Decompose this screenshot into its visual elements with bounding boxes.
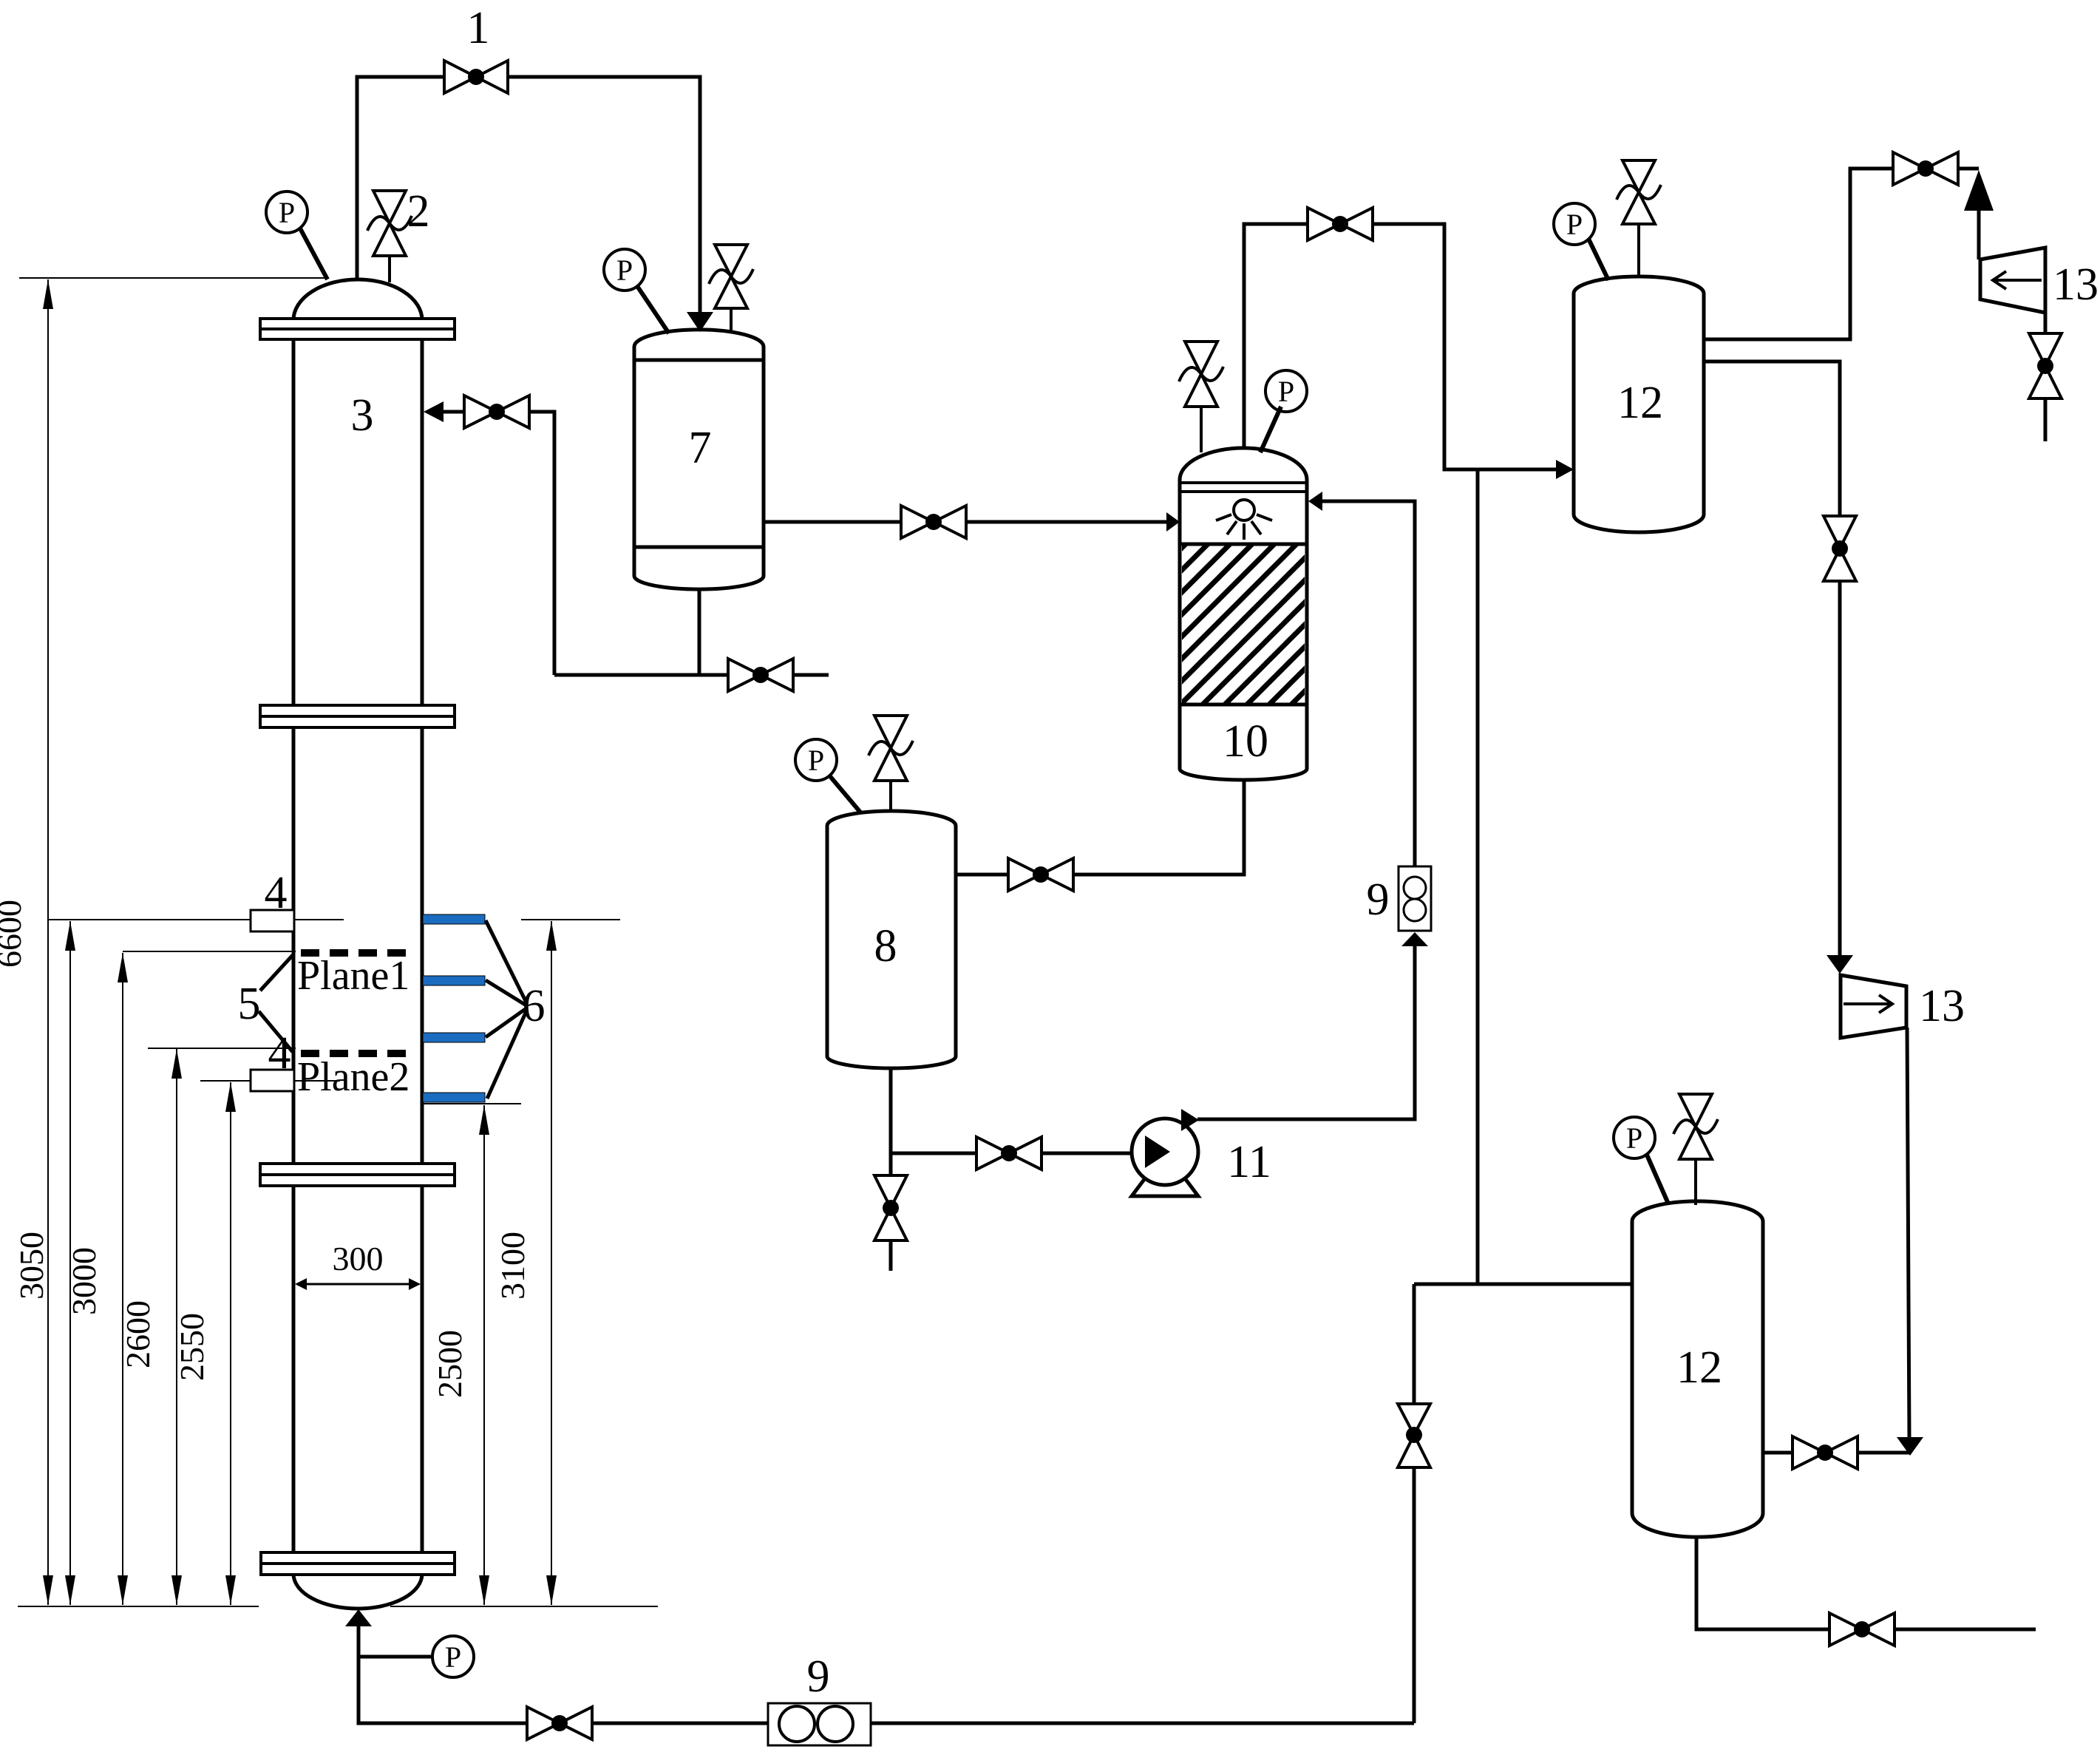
dimension 6600	[0, 279, 53, 1605]
vessel 10 body	[1180, 448, 1307, 780]
wire vessel 12 upper lower outlet to valve	[1704, 361, 1840, 516]
wire down to compressor 13 lower	[1838, 581, 1842, 955]
pressure gauge P (column 3 top)	[266, 191, 327, 279]
svg-text:12: 12	[1617, 378, 1663, 428]
valve (pump suction)	[976, 1137, 1041, 1170]
wire vessel 8 drain stub	[889, 1240, 893, 1271]
control valve (vessel 12 lower top)	[1673, 1094, 1718, 1205]
dimension 2600	[119, 1049, 182, 1605]
wire vessel 7 side outlet	[764, 520, 901, 524]
svg-text:P: P	[808, 744, 824, 777]
sensor bar 2 (blue)	[423, 976, 485, 985]
flow meter 9 (bottom)	[768, 1703, 871, 1745]
svg-text:P: P	[279, 196, 295, 229]
vertical valve (vessel 8 drain)	[874, 1175, 907, 1240]
ground reference line	[18, 1606, 658, 1607]
svg-text:2550: 2550	[173, 1313, 211, 1381]
hand valve (column 3 side feed)	[464, 396, 529, 428]
svg-text:P: P	[445, 1640, 461, 1674]
pressure gauge P (vessel 12 lower)	[1614, 1117, 1668, 1202]
valve (7 to 10 line)	[901, 506, 966, 538]
svg-text:2600: 2600	[119, 1300, 157, 1368]
svg-text:12: 12	[1676, 1342, 1722, 1393]
compressor 13 (upper)	[1980, 248, 2045, 313]
wire valve to compressor top	[1958, 169, 1979, 259]
valve (vessel 12 lower side)	[1793, 1436, 1858, 1469]
leader lines from 5	[259, 955, 293, 1052]
valve (compressor recycle)	[1893, 152, 1958, 185]
vessel 12 upper body	[1574, 276, 1704, 532]
control valve 2	[367, 191, 412, 282]
wire riser to vessel 10 right inlet	[1322, 501, 1415, 866]
pressure gauge P (vessel 7)	[604, 249, 669, 333]
wire vessel 12 lower side outlet	[1763, 1451, 1793, 1455]
valve (bottom header)	[527, 1707, 592, 1739]
wire drain header	[554, 673, 728, 677]
dashed line Plane2	[301, 1050, 413, 1057]
wire vessel 12 lower bottom outlet	[1696, 1537, 1829, 1629]
wire valve to flow meter 9	[592, 1722, 768, 1725]
svg-text:6600: 6600	[0, 900, 28, 968]
svg-text:P: P	[1278, 375, 1294, 408]
svg-text:13: 13	[2053, 259, 2099, 310]
wire vessel 8 bottom outlet	[889, 1068, 893, 1175]
vertical valve (12 to compressor line)	[1824, 516, 1856, 581]
dimension 3100	[494, 921, 557, 1605]
leader lines (sensor levels)	[48, 920, 620, 1104]
flange F1 (column top)	[260, 319, 455, 339]
vertical valve (compressor suction)	[2029, 333, 2062, 398]
catalyst bed hatch (vessel 10)	[1180, 544, 1307, 705]
dimension 3050	[13, 921, 75, 1605]
wire compressor suction	[2044, 313, 2048, 333]
leader lines from 6	[486, 920, 526, 1099]
arrow into column 3 bottom	[345, 1609, 372, 1626]
svg-text:3000: 3000	[65, 1247, 103, 1315]
wire vessel 12 upper gas outlet	[1704, 169, 1893, 339]
vertical valve (bottom loop riser)	[1398, 1404, 1430, 1467]
control valve (vessel 10 top)	[1179, 342, 1223, 452]
svg-text:2: 2	[407, 186, 430, 237]
valve (vessel 12 lower bottom)	[1829, 1613, 1895, 1646]
control valve (vessel 8 top)	[869, 716, 913, 811]
flange F3	[260, 1164, 455, 1186]
sensor bar 4 (blue)	[423, 1093, 485, 1102]
sensor bar 3 (blue)	[423, 1033, 485, 1042]
control valve (vessel 7 top)	[709, 245, 753, 333]
svg-text:P: P	[1626, 1121, 1642, 1155]
pressure gauge P (vessel 12 upper)	[1554, 203, 1608, 280]
vessel 7 body	[634, 330, 764, 589]
svg-text:P: P	[1566, 208, 1583, 241]
dimension 2500	[431, 1105, 489, 1605]
arrow into vessel 12	[1556, 460, 1574, 479]
pressure gauge P (column 3 bottom)	[359, 1636, 474, 1677]
arrow into vessel 7	[687, 312, 713, 332]
wire side valve to compressor drop	[1858, 1451, 1910, 1455]
arrow into compressor 13 lower	[1827, 955, 1853, 974]
sensor bar 1 (blue)	[423, 914, 485, 924]
svg-text:11: 11	[1227, 1137, 1271, 1187]
svg-text:4: 4	[265, 868, 288, 918]
svg-text:9: 9	[807, 1652, 830, 1702]
dashed line Plane1	[301, 949, 413, 957]
wire pump discharge riser	[1197, 946, 1415, 1119]
wire inlet header to vessel 12 lower	[1414, 1283, 1632, 1286]
pressure gauge P (vessel 8)	[795, 739, 861, 813]
wire vessel 10 recycle riser	[1244, 224, 1308, 449]
reference line top	[19, 277, 325, 279]
svg-text:5: 5	[238, 979, 261, 1029]
svg-text:P: P	[616, 254, 633, 287]
valve (10 to 8 line)	[1008, 858, 1073, 891]
svg-text:1: 1	[467, 3, 490, 53]
column 3 vessel body	[293, 279, 422, 1609]
control valve (vessel 12 upper top)	[1617, 160, 1661, 278]
wire valve 1 to vessel 7 top	[508, 77, 700, 313]
wire valve to vessel 8	[956, 873, 1008, 877]
arrow down to vessel 12 lower side line	[1897, 1437, 1923, 1456]
vessel 12 lower body	[1632, 1201, 1763, 1537]
wire column 3 top to valve 1	[357, 77, 444, 281]
wire arrow to side valve	[443, 410, 464, 414]
svg-text:13: 13	[1919, 981, 1965, 1031]
arrow up (compressor discharge)	[1964, 170, 1994, 211]
svg-text:Plane1: Plane1	[297, 953, 410, 999]
svg-text:9: 9	[1367, 875, 1390, 925]
svg-text:Plane2: Plane2	[297, 1054, 410, 1100]
pump 11	[1132, 1109, 1199, 1196]
svg-text:3050: 3050	[13, 1232, 50, 1300]
wire valve to pump 11	[1041, 1152, 1134, 1155]
svg-text:3: 3	[351, 390, 374, 441]
wire bottom outlet stub	[1895, 1628, 2036, 1632]
wire branch down from inlet header	[1413, 1284, 1416, 1404]
svg-text:10: 10	[1223, 716, 1268, 767]
wire recycle to vessel 12	[1373, 224, 1556, 469]
svg-text:3100: 3100	[494, 1232, 531, 1300]
flow meter 9 (riser)	[1399, 866, 1431, 931]
svg-text:7: 7	[689, 423, 712, 473]
sensor box 4 (upper)	[251, 910, 294, 931]
dimension 2550	[173, 1082, 236, 1605]
wire junction down to lower vessel 12	[1476, 469, 1480, 1284]
wire compressor 13 lower discharge	[1907, 1028, 1909, 1437]
dimension 300 (column width)	[295, 1240, 421, 1290]
wire drain stub	[793, 673, 829, 677]
dimension 3000	[65, 953, 128, 1605]
valve (recycle line)	[1308, 208, 1373, 240]
valve 1	[444, 61, 508, 93]
arrow into vessel 10 left	[1166, 512, 1180, 532]
wire suction stub	[2044, 398, 2048, 441]
wire meter to riser corner	[871, 1722, 1414, 1725]
wire vessel 8 to pump suction valve	[891, 1152, 976, 1155]
vessel 8 body	[827, 811, 956, 1068]
drain valve	[728, 659, 793, 691]
svg-text:2500: 2500	[431, 1330, 469, 1398]
wire valve to vessel 10	[966, 520, 1168, 524]
wire vessel 10 bottom outlet to valve	[1073, 779, 1244, 875]
compressor 13 (lower)	[1841, 975, 1906, 1038]
wire vessel 7 bottom outlet	[698, 589, 701, 675]
wire column 3 bottom feed	[359, 1626, 527, 1723]
spray nozzle (vessel 10)	[1216, 500, 1272, 540]
flange F2	[260, 705, 455, 727]
svg-text:300: 300	[333, 1240, 384, 1277]
arrow into vessel 10 right	[1308, 492, 1322, 511]
wire side valve down to drain header	[529, 412, 554, 675]
wire riser valve down to bottom header	[1413, 1467, 1416, 1723]
arrow into column 3 side	[424, 401, 444, 422]
arrow into flow meter 9 (riser)	[1401, 932, 1428, 946]
pressure gauge P (vessel 10)	[1260, 370, 1307, 452]
flange F4 (column bottom)	[261, 1552, 455, 1575]
svg-text:8: 8	[874, 921, 897, 971]
sensor box 4 (lower)	[251, 1070, 294, 1091]
